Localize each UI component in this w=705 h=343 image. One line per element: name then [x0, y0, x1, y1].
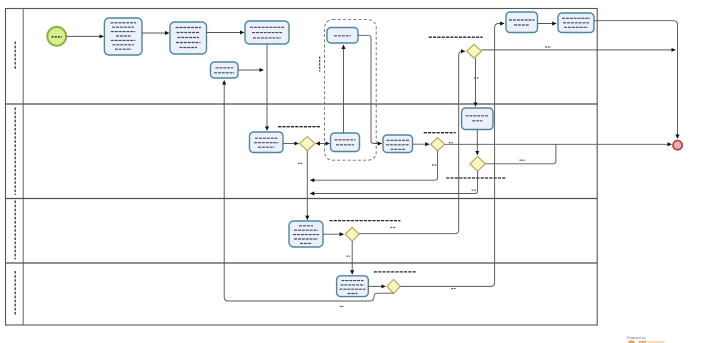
svg-text:Powered by: Powered by [627, 336, 646, 340]
lane 2 label: سازمان فناوری اطلاعات ایران ارزیابی امنیتی و محتوایی (rotated) [14, 108, 16, 196]
wire: task درخواست → task بارگذاری مدارک [207, 32, 244, 34]
label: بله (D2) [449, 142, 453, 144]
watermark: bizagi logo (clipped at bottom edge) [628, 340, 665, 343]
lane 1 label: متقاضی (rotated) [14, 42, 16, 71]
task: رفع نواقص [327, 28, 358, 44]
dashed group دو مرحله [325, 20, 377, 161]
pool frame [6, 9, 598, 326]
wire: D6 خیر ← ↑ رفع نقص توسط متقاضی [224, 81, 393, 302]
wire: رفع نواقص → ↓ → ارزیابی ثانویه [358, 35, 382, 143]
wire: D3 بله ↓ ← merge into D1-خیر wire [310, 171, 477, 193]
task: بارگذاری تعهد شده در سامانه [506, 12, 538, 33]
wire: D1 خیر ↓ to ارزیابی کارشناسان [306, 151, 308, 220]
wire: ارزیابی کارشناسان → D5 [323, 233, 344, 235]
start event شروع [47, 27, 66, 46]
lane 3 label: سازمان فناوری اطلاعات ایران ارزیابی فنی (rotated) [14, 201, 16, 260]
wire: ارزیابی ثانویه → D2 [413, 143, 430, 145]
gateway D5: آیا کارشناسان در آزمون قبول شدند؟ [329, 221, 400, 242]
task: درخواست ایجاد پروژه به سامانه ارزیابی و صدور پروانه فعالیت [170, 22, 207, 54]
label: خیر (D1) [298, 162, 303, 164]
wire: D3 خیر → ↑ merge to end line [485, 144, 556, 164]
gateway D4: آیا قصد تغییر کارشناسان را دارید؟ [429, 37, 483, 58]
wire: D6 بله → ↑ بارگذاری تعهد [400, 24, 504, 287]
wire: task ورود → task درخواست [142, 32, 169, 34]
lane divider 3/4 [6, 262, 598, 264]
task: رفع نقص توسط متقاضی [211, 62, 239, 78]
lane divider 2/3 [6, 198, 598, 200]
wire: D2 خیر ↓ ← merge into D1-خیر wire [310, 151, 437, 180]
wire: معرفی کارشناسان ↓ D3 [476, 130, 478, 155]
task: ارزیابی اولیه پرونده توسط سازمان [250, 132, 284, 153]
label: بله (D3) [472, 189, 477, 191]
task: ارسال نقص ها به متقاضی [331, 133, 360, 152]
gateway D1: آیا پرونده نقص دارد؟ [278, 127, 320, 151]
wire: ارسال نقص ها ↑ رفع نواقص [343, 45, 345, 133]
label: خیر (D6) [340, 305, 344, 307]
wire: ارزیابی پرونده مرکز → D6 [368, 285, 385, 287]
wire: D2 بله → end event [445, 143, 672, 145]
gateway D2: آیا پرونده نقص دارد؟ [424, 133, 456, 151]
lane label column divider [22, 9, 24, 326]
label: خیر (D5) [391, 226, 397, 228]
group label دو مرحله (rotated) [319, 57, 321, 72]
lane 4 label: مرکز مدیریت راهبردی افتا (rotated) [14, 271, 16, 315]
wire: start → task ورود [66, 35, 103, 37]
label: خیر (D4) [545, 46, 551, 48]
wire: D4 خیر → merge into end-event drop line [481, 49, 675, 51]
task: ارزیابی کارشناسان معتمد شده با استفاده از آزمون کتبی و مصاحبه [289, 221, 323, 247]
label: بله (D6) [451, 288, 455, 290]
wire: مراجعه متقاضی → ↓ end event [594, 21, 678, 139]
gateway D3: آیا کارشناسان جدید مورد تایید هستند؟ [446, 156, 506, 178]
label: بله (D4) [474, 77, 478, 79]
wire: رفع نقص → merge junction [238, 69, 263, 71]
label: خیر (D3) [520, 159, 526, 161]
task: مراجعه متقاضی به همراه مدارک مربوطه جهت دریافت مجوز [558, 13, 594, 33]
wire: D1 → ارسال نقص ها (double headed) [319, 143, 330, 145]
gateway D6: آیا پرونده مورد تایید است؟ [374, 272, 416, 294]
wire: D5 بله ↓ ارزیابی پرونده مرکز [351, 241, 353, 274]
wire: D5 خیر → ↑ D4 [359, 51, 465, 234]
label: بله (D5) [347, 255, 351, 257]
wire: بارگذاری تعهد → مراجعه متقاضی [538, 23, 557, 25]
label: خیر (D2) [432, 164, 437, 166]
lane divider 1/2 [6, 103, 598, 105]
end event [673, 141, 682, 150]
wire: D4 بله ↓ معرفی کارشناسان [475, 58, 477, 106]
task: معرفی کارشناسان جدید [462, 108, 493, 130]
task: ارزیابی ثانویه پرونده توسط سازمان [383, 135, 413, 153]
task: ارزیابی پرونده توسط مرکز مدیریت راهبردی افتا [337, 276, 369, 297]
wire: ارزیابی اولیه → D1 [283, 143, 298, 145]
task: بارگذاری مدارک مورد نیاز مجوز در سامانه ظرف مدت ۲۴ ساعت [245, 21, 289, 44]
wire: بارگذاری مدارک ↓ ارزیابی اولیه [266, 44, 268, 130]
task: ورود به پنجره ملی خدمات دولت هوشمند my.gov.ir و ثبت نام در درگاه ملی مجوزهای کشور [104, 18, 142, 55]
wire: ارسال نقص ها → D1 (reverse head) [316, 141, 320, 145]
